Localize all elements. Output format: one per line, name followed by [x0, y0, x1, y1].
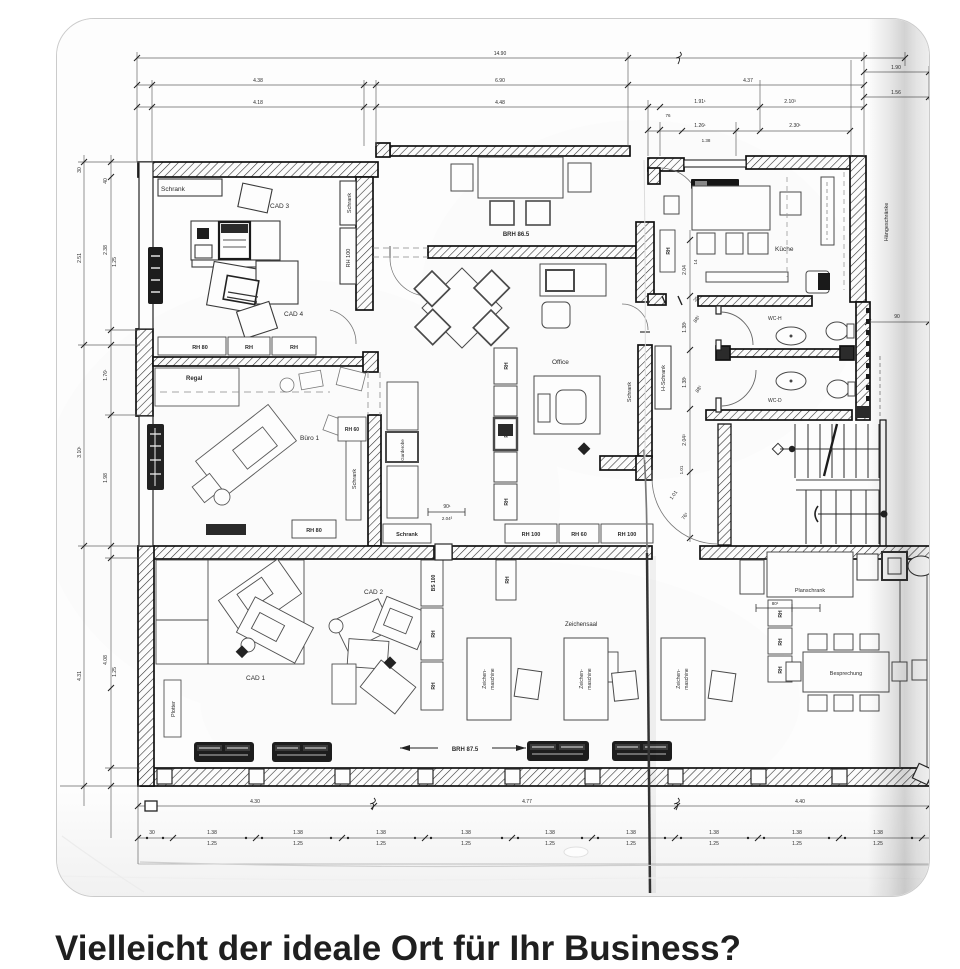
small dim arrows above corridor shelf: [428, 508, 465, 516]
svg-text:Regal: Regal: [218, 528, 234, 534]
door arc wc bottom: [722, 370, 756, 406]
svg-text:1.25: 1.25: [207, 841, 217, 847]
meeting table: [478, 157, 563, 198]
kitchen table: [692, 186, 770, 230]
dimension number labels: [149, 51, 901, 847]
door arc office to corridor: [622, 304, 648, 330]
extra corridor rotated labels: [679, 259, 700, 474]
svg-text:1.25: 1.25: [293, 841, 303, 847]
wall: office bottom L: [600, 456, 640, 470]
corridor boxes above wall seg1 (RH 80 etc already): [421, 560, 516, 710]
printer dark corner mark: [197, 228, 209, 239]
svg-text:1.25: 1.25: [626, 841, 636, 847]
wall: middle wall below meeting table (BRH 86.5): [428, 246, 636, 258]
svg-text:1.38: 1.38: [626, 830, 636, 836]
svg-text:1.38: 1.38: [545, 830, 555, 836]
svg-text:1.38: 1.38: [792, 830, 802, 836]
bottom dim line 2: [138, 837, 929, 839]
svg-text:RH: RH: [290, 345, 298, 351]
svg-text:Regal: Regal: [186, 376, 203, 382]
svg-text:4.08: 4.08: [103, 655, 109, 665]
corridor cabinet column right of Buero1 wall: [386, 382, 418, 518]
svg-text:CAD 4: CAD 4: [284, 311, 304, 318]
svg-text:Küche: Küche: [775, 246, 794, 253]
svg-text:BRH 86.5: BRH 86.5: [503, 232, 530, 238]
RH 80 box + Regal label bottom of Buero1: [292, 520, 336, 538]
svg-text:1.26¹: 1.26¹: [694, 123, 706, 129]
wall: long corridor wall seg3: [700, 546, 934, 559]
svg-text:Büro 1: Büro 1: [300, 435, 320, 442]
svg-text:RH: RH: [778, 666, 784, 674]
chair in desk: [556, 390, 586, 424]
stair arrow lower: [818, 513, 884, 515]
counter bottom: [706, 272, 788, 282]
svg-text:maschine: maschine: [587, 668, 593, 690]
svg-text:30: 30: [77, 167, 83, 173]
top dim line 2: [137, 84, 864, 86]
kitchen side shelf label: [660, 230, 675, 272]
sink WC-H: [776, 322, 855, 398]
svg-text:Plotter: Plotter: [171, 701, 177, 717]
svg-text:2.10³: 2.10³: [784, 99, 796, 105]
svg-text:RH 100: RH 100: [618, 532, 637, 538]
svg-text:14.90: 14.90: [494, 51, 507, 57]
dashed fridge line: [843, 172, 845, 290]
corridor shelf row: [383, 524, 653, 543]
svg-text:WC-D: WC-D: [768, 398, 782, 404]
svg-text:BRH 87.5: BRH 87.5: [452, 747, 479, 753]
svg-text:4.31: 4.31: [77, 671, 83, 681]
svg-text:Schrank: Schrank: [347, 193, 353, 213]
wall: office right lower: [638, 345, 652, 457]
wall: right lower balcony double lines: [900, 559, 927, 768]
wall: kitchen top right: [746, 156, 852, 169]
small dim near planschrank: [756, 604, 820, 612]
svg-text:RH 60: RH 60: [345, 427, 359, 433]
svg-text:Zeichen-: Zeichen-: [482, 669, 488, 689]
svg-text:1.38: 1.38: [376, 830, 386, 836]
svg-text:RH: RH: [431, 630, 437, 638]
svg-text:Garderobe: Garderobe: [400, 439, 405, 461]
left guide horizontals: [78, 161, 153, 163]
svg-text:WC-H: WC-H: [768, 316, 782, 322]
svg-text:RH 100: RH 100: [522, 532, 541, 538]
bottom dim line 1: [138, 805, 929, 807]
stairwell left wall: [718, 424, 731, 545]
cabinet Schrank top: [158, 179, 222, 196]
svg-text:1.25: 1.25: [792, 841, 802, 847]
wall: center-top room top: [390, 146, 630, 156]
H-Schrank vertical box: [655, 346, 671, 409]
wall: wc bottom: [706, 410, 852, 420]
kitchen window lintel: [684, 160, 746, 167]
office desk: [534, 376, 600, 434]
right side dim at wc: [868, 321, 929, 323]
door arc top-left room: [330, 310, 356, 344]
top guide verticals: [136, 52, 138, 162]
wall: building right at kitchen: [850, 156, 866, 302]
door arc at hall left: [390, 258, 428, 296]
headline caption (cut off at page bottom): [55, 929, 741, 969]
dark plotter on CAD3 desk: [219, 222, 250, 259]
left dim verticals: [83, 155, 85, 806]
radiators dark blocks: [194, 741, 672, 762]
wall: building right at stairs (thin): [880, 420, 886, 547]
svg-text:RH: RH: [666, 247, 672, 255]
wall: long corridor wall seg2: [452, 546, 652, 559]
svg-text:CAD 3: CAD 3: [270, 203, 290, 210]
desk Buero 1: [192, 405, 296, 505]
horizontal crease: [140, 862, 960, 867]
svg-text:2.38: 2.38: [103, 245, 109, 255]
dot marks at bottom tick line: [146, 837, 913, 839]
svg-text:1.38: 1.38: [461, 830, 471, 836]
svg-text:1.25: 1.25: [461, 841, 471, 847]
svg-text:1.25: 1.25: [376, 841, 386, 847]
svg-text:Office: Office: [552, 359, 569, 366]
svg-text:30: 30: [149, 830, 155, 836]
chair right margin: [912, 660, 927, 680]
svg-text:4.40: 4.40: [795, 799, 805, 805]
wall: kitchen bottom left stub: [648, 294, 666, 305]
BRH 87.5 arrows: [400, 747, 526, 749]
wall: kitchen top left stub: [648, 158, 684, 171]
svg-text:4.18: 4.18: [253, 100, 263, 106]
svg-text:RH 80: RH 80: [306, 528, 322, 534]
chair left: [451, 164, 473, 191]
svg-text:1.25: 1.25: [112, 667, 118, 677]
Zeichenmaschine tables: [467, 638, 736, 720]
small sketches top of Buero1: [280, 367, 366, 437]
wall: shelf wall between CAD room and Buero 1: [153, 357, 367, 366]
punch hole on fold: [564, 847, 588, 857]
svg-text:4.30: 4.30: [250, 799, 260, 805]
svg-text:1.01: 1.01: [679, 465, 684, 474]
svg-text:Zeichen-: Zeichen-: [579, 669, 585, 689]
svg-text:1.38¹: 1.38¹: [682, 376, 688, 388]
svg-text:2.04: 2.04: [682, 265, 688, 275]
corridor dim ticks: [687, 237, 693, 243]
hatch block right of wc bottom: [856, 406, 870, 418]
svg-text:RH: RH: [778, 610, 784, 618]
sink WC-D: [776, 372, 806, 390]
svg-text:RH: RH: [504, 362, 510, 370]
door arc wc top: [721, 312, 753, 345]
toilet WC-H: [826, 322, 848, 340]
svg-text:1.91¹: 1.91¹: [694, 99, 706, 105]
counter right wall: [821, 177, 834, 245]
svg-text:RH: RH: [245, 345, 253, 351]
cabinet Schrank right vertical: [340, 181, 356, 225]
svg-text:Schrank: Schrank: [396, 532, 419, 538]
dark radiator left lower: [147, 424, 164, 490]
RH boxes column right of CAD2: [592, 600, 792, 682]
Plotter vertical box: [164, 680, 181, 737]
svg-text:Besprechung: Besprechung: [830, 671, 862, 677]
right-edge scan shading band overlay: [868, 19, 929, 896]
office chair upper: [542, 302, 570, 328]
svg-text:40: 40: [103, 178, 109, 184]
svg-text:1.38: 1.38: [709, 830, 719, 836]
svg-text:BS 100: BS 100: [431, 574, 437, 591]
cabinet column center: [494, 348, 517, 520]
wall: left upper double-line sections: [139, 162, 153, 546]
svg-text:14: 14: [693, 259, 698, 265]
chair right: [568, 163, 591, 192]
svg-text:1.38: 1.38: [207, 830, 217, 836]
top dim line 3: [137, 106, 864, 108]
chair right of table: [780, 192, 801, 215]
svg-text:2.30¹: 2.30¹: [789, 123, 801, 129]
svg-text:maschine: maschine: [684, 668, 690, 690]
dark wall cabinet left upper: [148, 247, 163, 304]
chair left of table: [664, 196, 679, 214]
stair lower flight vertical treads: [805, 490, 807, 544]
svg-text:RH: RH: [431, 682, 437, 690]
svg-text:2.04³: 2.04³: [442, 516, 453, 521]
stair upper flight vertical treads: [794, 424, 796, 478]
vertical fold: [647, 553, 650, 893]
svg-text:RH 100: RH 100: [346, 249, 352, 268]
svg-text:4.38: 4.38: [253, 78, 263, 84]
bottom scan shading: [57, 790, 929, 896]
svg-text:RH: RH: [778, 638, 784, 646]
svg-text:1.38¹: 1.38¹: [682, 321, 688, 333]
wall: kitchen left stub: [648, 168, 660, 184]
svg-text:Zeichensaal: Zeichensaal: [565, 622, 597, 628]
dashed corridor lines to left wall: [373, 247, 428, 249]
svg-text:H-Schrank: H-Schrank: [661, 365, 667, 391]
CAD2 desk cluster: [329, 596, 431, 714]
wall: top-left room top: [138, 162, 378, 177]
wall: long corridor wall seg1: [138, 546, 434, 559]
svg-text:CAD 1: CAD 1: [246, 675, 266, 682]
wall: Buero1 right lower: [368, 415, 381, 546]
svg-text:80¹: 80¹: [772, 601, 779, 606]
insulation dotted wall right of wc: [866, 308, 870, 415]
marker box at left end of bottom dim line1: [145, 801, 157, 811]
svg-text:4.48: 4.48: [495, 100, 505, 106]
wall: left lower outer: [138, 546, 154, 786]
svg-text:RH: RH: [504, 498, 510, 506]
wall: bottom outer: [138, 768, 930, 786]
vertical cabinet right of Buero1: [346, 438, 361, 520]
wall: wc mid: [718, 349, 852, 357]
RH 60 box: [338, 417, 366, 441]
Planschrank: [740, 560, 764, 594]
chairs row below: [697, 233, 715, 254]
svg-text:1.98: 1.98: [103, 473, 109, 483]
corridor vertical dim: [689, 230, 691, 542]
svg-text:CAD 2: CAD 2: [364, 589, 384, 596]
svg-text:RH 60: RH 60: [571, 532, 587, 538]
sink: [806, 271, 829, 293]
bottom line2 ticks (pillar axes): [135, 835, 141, 841]
svg-text:76: 76: [665, 113, 671, 118]
svg-text:Planschrank: Planschrank: [795, 588, 826, 594]
laptop stripes on CAD4 desk: [223, 275, 259, 304]
svg-text:Schrank: Schrank: [161, 186, 186, 193]
bottom-left diagonal crease: [62, 836, 144, 892]
break squiggles on bottom dim line1: [370, 798, 375, 810]
Besprechung: [786, 634, 907, 711]
diamond table: [414, 268, 509, 348]
svg-text:maschine: maschine: [490, 668, 496, 690]
svg-text:6.90: 6.90: [495, 78, 505, 84]
cabinet RH column right: [340, 228, 356, 284]
wall: center-top room top left stub: [376, 143, 390, 157]
stair handrail diagonal: [824, 424, 837, 476]
wall: kitchen bottom: [698, 296, 812, 306]
svg-text:RH: RH: [505, 576, 511, 584]
pillar box in corridor wall gap: [435, 544, 452, 560]
big desks top-left: [156, 560, 304, 664]
bottom faint line: [138, 863, 929, 865]
top right short dims: [864, 71, 929, 73]
CAD1 desk cluster: [218, 559, 313, 663]
stair upper guide line with dot: [780, 448, 880, 450]
svg-text:3.10¹: 3.10¹: [77, 446, 83, 458]
stair landing: [796, 479, 880, 481]
window pillars on bottom wall: [157, 763, 934, 784]
svg-text:4.77: 4.77: [522, 799, 532, 805]
desk group CAD3: [238, 183, 272, 213]
toilet WC-D: [827, 380, 849, 398]
left column ticks: [81, 159, 87, 165]
office cabinet top: [540, 264, 606, 296]
door arc kitchen entry: [660, 168, 700, 208]
wall: left outer mid (hatched): [136, 329, 153, 416]
desk group CAD4: [207, 261, 270, 314]
wall: building right at wc: [856, 302, 870, 420]
svg-text:Schrank: Schrank: [627, 382, 633, 402]
svg-text:1.38: 1.38: [702, 138, 711, 143]
top line ticks: [134, 55, 140, 61]
shelf row RH boxes: [158, 337, 316, 355]
wall: top-left room right: [356, 177, 373, 310]
chairs below: [490, 201, 514, 225]
Regal band: [155, 368, 239, 406]
kitchen door ticks: [662, 296, 666, 305]
door opening dashes Buero1: [367, 372, 369, 415]
svg-text:2.51: 2.51: [77, 253, 83, 263]
svg-text:Schrank: Schrank: [352, 469, 358, 489]
wall: office right upper: [636, 222, 654, 302]
svg-text:Zeichen-: Zeichen-: [676, 669, 682, 689]
svg-text:90¹: 90¹: [443, 504, 451, 510]
door arc corridor to big room: [652, 478, 718, 544]
diamond mark office: [578, 442, 591, 455]
svg-text:RH: RH: [504, 430, 510, 438]
svg-text:1.25: 1.25: [545, 841, 555, 847]
top dim line 4 short: [648, 130, 850, 132]
wall: T-block at corridor: [363, 352, 378, 372]
svg-text:1.25: 1.25: [112, 257, 118, 267]
top dim line 1: [137, 57, 905, 59]
bottom line1 ticks: [135, 803, 141, 809]
wc left thin wall segments: [716, 306, 721, 412]
svg-text:4.37: 4.37: [743, 78, 753, 84]
svg-text:2.04³: 2.04³: [682, 434, 688, 446]
dim ticks: [81, 55, 932, 789]
rotated left dimension labels: [77, 167, 118, 681]
svg-text:1.38: 1.38: [293, 830, 303, 836]
right fixtures at wall y556: [857, 552, 934, 580]
svg-text:RH 80: RH 80: [192, 345, 208, 351]
svg-text:1.25: 1.25: [709, 841, 719, 847]
corridor rotated labels: [682, 265, 900, 446]
svg-text:1.76¹: 1.76¹: [103, 369, 109, 381]
stove dark block: [691, 179, 739, 189]
